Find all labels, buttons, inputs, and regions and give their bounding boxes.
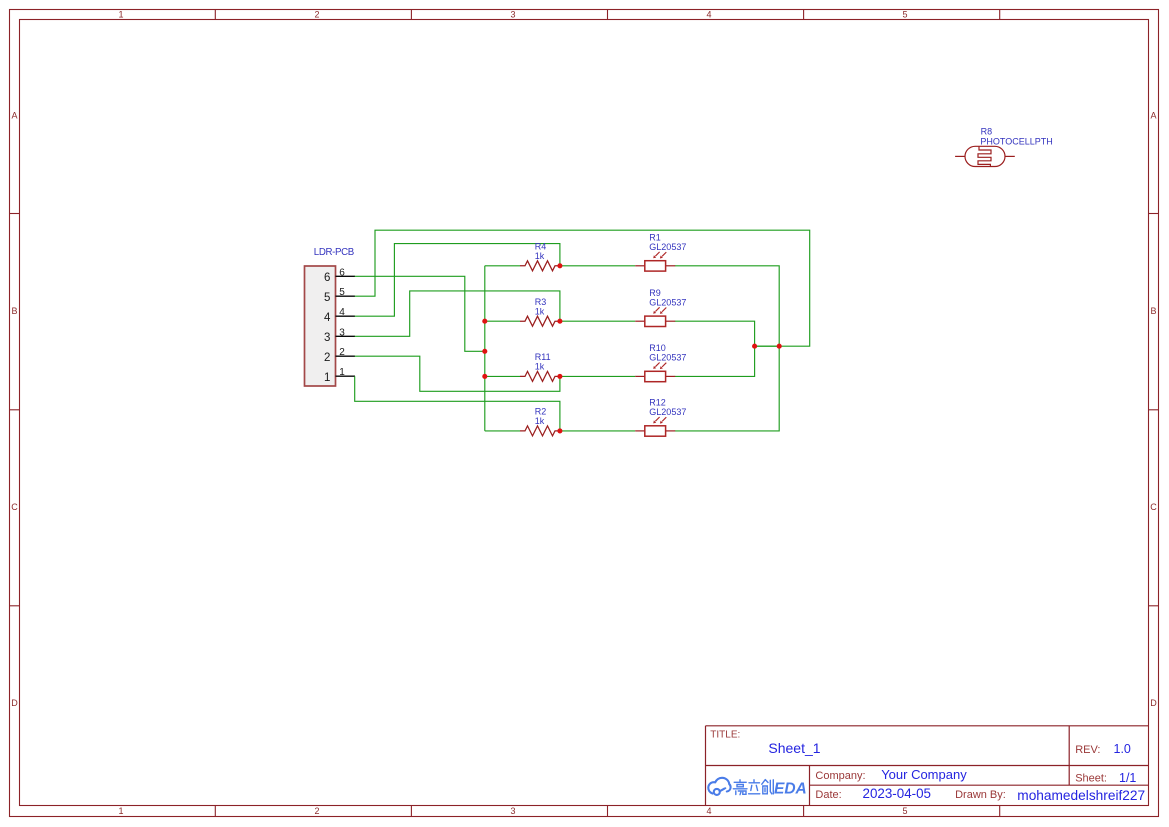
junction dot R11 right — [557, 374, 562, 379]
connector pin 6 — [324, 267, 355, 284]
resistor R2 1k — [520, 407, 560, 436]
svg-text:R4: R4 — [535, 242, 547, 252]
JLCEDA logo cloud — [708, 778, 730, 795]
svg-text:1: 1 — [324, 372, 330, 384]
title block — [706, 726, 1149, 806]
connector pin 5 — [324, 287, 355, 304]
svg-text:2023-04-05: 2023-04-05 — [863, 786, 932, 801]
svg-text:R1: R1 — [649, 233, 661, 243]
wire R3 row left — [485, 320, 520, 322]
resistor R11 1k — [520, 352, 560, 381]
svg-text:3: 3 — [510, 806, 515, 816]
svg-text:1: 1 — [118, 10, 123, 20]
photoresistor R10 GL20537 — [635, 343, 686, 382]
svg-text:GL20537: GL20537 — [649, 407, 686, 417]
connector pin 4 — [324, 307, 355, 324]
svg-text:Drawn By:: Drawn By: — [955, 789, 1006, 801]
photoresistor R9 GL20537 — [635, 288, 686, 327]
junction dot left bus pin6 — [482, 349, 487, 354]
svg-text:A: A — [11, 111, 17, 121]
wire pin1 down and over to R2 right junction — [355, 376, 560, 431]
svg-text:REV:: REV: — [1075, 744, 1100, 756]
svg-text:5: 5 — [324, 292, 330, 304]
svg-text:1: 1 — [118, 806, 123, 816]
svg-text:R9: R9 — [649, 288, 661, 298]
svg-text:GL20537: GL20537 — [649, 242, 686, 252]
svg-text:R11: R11 — [535, 352, 551, 362]
svg-text:2: 2 — [339, 347, 345, 358]
wire pin2 down and over to R11 right junction — [355, 356, 560, 391]
svg-text:LDR-PCB: LDR-PCB — [314, 247, 354, 258]
junction dot common right — [777, 344, 782, 349]
wire pin6 to left vertical bus — [355, 276, 485, 351]
resistor R4 1k — [520, 242, 560, 271]
JLCEDA logo characters — [733, 780, 773, 795]
svg-text:1k: 1k — [535, 251, 545, 261]
wire pin3 up and over to R3 right junction — [355, 291, 560, 336]
svg-text:B: B — [11, 306, 17, 316]
svg-text:D: D — [1150, 698, 1157, 708]
svg-text:1k: 1k — [535, 307, 545, 317]
junction dot left bus R3 — [482, 319, 487, 324]
svg-text:R3: R3 — [535, 297, 547, 307]
wire R4 to R1 — [560, 265, 635, 267]
svg-text:1/1: 1/1 — [1119, 771, 1136, 785]
svg-text:5: 5 — [902, 10, 907, 20]
junction dot R2 right — [557, 428, 562, 433]
wire R11 row left — [485, 375, 520, 377]
photoresistor R12 GL20537 — [635, 398, 686, 437]
svg-text:GL20537: GL20537 — [649, 297, 686, 307]
svg-text:1.0: 1.0 — [1114, 742, 1131, 756]
junction dot R3 right — [557, 319, 562, 324]
svg-text:mohamedelshreif227: mohamedelshreif227 — [1017, 788, 1145, 803]
wire R12 right to common — [675, 346, 779, 431]
svg-text:2: 2 — [314, 10, 319, 20]
junction dot R4 right — [557, 263, 562, 268]
junction dot left bus R11 — [482, 374, 487, 379]
connector pin 2 — [324, 347, 355, 364]
wire R1 right to common — [675, 266, 779, 346]
svg-text:5: 5 — [902, 806, 907, 816]
resistor R3 1k — [520, 297, 560, 326]
svg-text:C: C — [1150, 502, 1157, 512]
wire R2 to R12 — [560, 430, 635, 432]
svg-text:1k: 1k — [535, 416, 545, 426]
svg-text:Sheet:: Sheet: — [1075, 773, 1107, 785]
svg-text:4: 4 — [706, 806, 711, 816]
wire R4 row left — [485, 265, 520, 267]
svg-text:3: 3 — [339, 327, 345, 338]
svg-text:2: 2 — [314, 806, 319, 816]
svg-text:4: 4 — [339, 307, 345, 318]
photocell R8 PHOTOCELLPTH — [955, 127, 1053, 167]
svg-text:R2: R2 — [535, 407, 547, 417]
svg-text:R12: R12 — [649, 398, 666, 408]
svg-text:EDA: EDA — [774, 781, 807, 798]
svg-text:TITLE:: TITLE: — [710, 730, 740, 741]
svg-text:GL20537: GL20537 — [649, 353, 686, 363]
svg-text:Sheet_1: Sheet_1 — [768, 740, 820, 756]
wire pin4 up and over to R4 right junction — [355, 244, 560, 317]
connector pin 3 — [324, 327, 355, 344]
photoresistor R1 GL20537 — [635, 233, 686, 272]
svg-text:D: D — [11, 698, 18, 708]
connector LDR-PCB body — [305, 247, 354, 386]
svg-text:Your Company: Your Company — [881, 767, 967, 782]
wire R11 to R10 — [560, 375, 635, 377]
svg-text:6: 6 — [339, 267, 345, 278]
connector pin 1 — [324, 367, 355, 384]
wire R10 right to common — [675, 346, 755, 376]
svg-text:4: 4 — [706, 10, 711, 20]
wire R2 row left — [485, 430, 520, 432]
svg-text:Company:: Company: — [815, 770, 865, 782]
svg-text:1: 1 — [339, 367, 345, 378]
wire left vertical bus — [484, 266, 486, 431]
svg-text:Date:: Date: — [815, 789, 841, 801]
wire R3 to R9 — [560, 320, 635, 322]
wire pin5 to top rail and down to common node — [355, 230, 810, 346]
svg-text:A: A — [1150, 111, 1156, 121]
svg-text:6: 6 — [324, 272, 330, 284]
svg-text:4: 4 — [324, 312, 331, 324]
wire R9 right to common — [675, 321, 755, 346]
wire common node segment — [755, 345, 780, 347]
svg-text:PHOTOCELLPTH: PHOTOCELLPTH — [980, 136, 1052, 146]
svg-text:3: 3 — [510, 10, 515, 20]
svg-text:1k: 1k — [535, 362, 545, 372]
svg-text:5: 5 — [339, 287, 345, 298]
svg-text:C: C — [11, 502, 18, 512]
svg-text:R10: R10 — [649, 343, 666, 353]
svg-text:2: 2 — [324, 352, 330, 364]
svg-text:3: 3 — [324, 332, 330, 344]
svg-text:R8: R8 — [981, 127, 993, 137]
junction dot common left — [752, 344, 757, 349]
svg-text:B: B — [1150, 306, 1156, 316]
